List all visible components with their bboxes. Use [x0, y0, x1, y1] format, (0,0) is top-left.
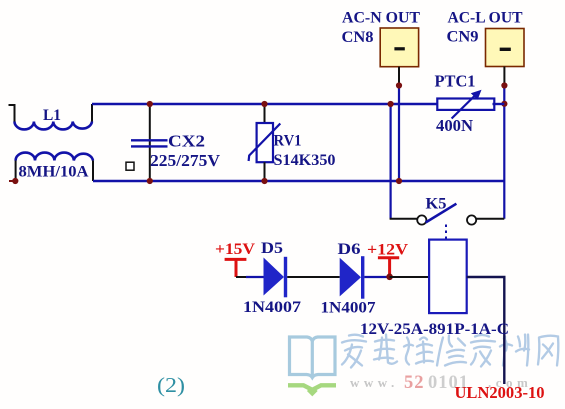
svg-text:1N4007: 1N4007 — [321, 300, 376, 317]
svg-text:CN8: CN8 — [342, 29, 374, 46]
wire to K5 left contact — [390, 218, 418, 220]
diode D5 1N4007 — [264, 257, 288, 298]
svg-text:AC-L OUT: AC-L OUT — [448, 10, 523, 27]
watermark green swoosh — [288, 385, 336, 390]
node dot +12V — [386, 274, 393, 281]
svg-text:L1: L1 — [43, 107, 61, 124]
wire top rail down to K5 — [390, 104, 392, 219]
thermistor PTC1 — [437, 90, 504, 119]
power terminal +15V — [225, 259, 247, 277]
svg-text:S14K350: S14K350 — [274, 152, 336, 169]
svg-text:RV1: RV1 — [274, 133, 302, 150]
svg-text:ULN2003-10: ULN2003-10 — [455, 383, 545, 402]
watermark chinese text 家电维修资料网 — [342, 335, 558, 368]
料 — [500, 335, 529, 366]
svg-text:+12V: +12V — [367, 242, 408, 259]
wire relay coil to ULN2003 — [467, 277, 505, 384]
svg-text:PTC1: PTC1 — [435, 72, 476, 91]
svg-text:225/275V: 225/275V — [150, 151, 221, 170]
svg-text:D5: D5 — [261, 240, 283, 257]
wire CN8 to bottom rail — [398, 86, 400, 182]
svg-text:8MH/10A: 8MH/10A — [19, 163, 89, 180]
node dot CN9 PTC junction — [501, 101, 507, 107]
node dot CN9 pin — [501, 82, 507, 88]
wire top rail — [92, 103, 437, 105]
wire left stub to node — [9, 180, 16, 182]
watermark book icon — [290, 337, 336, 378]
svg-text:1N4007: 1N4007 — [243, 299, 301, 316]
node dot CX2 top — [147, 101, 153, 107]
relay contact K5 — [417, 204, 504, 240]
watermark www.520101.com — [350, 373, 532, 393]
维 — [404, 338, 433, 365]
wire D5 to D6 — [287, 276, 340, 278]
connector CN8 — [380, 28, 418, 86]
wire D6 to +12V node — [364, 276, 389, 278]
wire +12V node to relay coil — [390, 276, 430, 278]
power terminal +12V — [378, 258, 399, 274]
svg-text:(2): (2) — [157, 373, 185, 397]
diode D6 1N4007 — [340, 256, 365, 299]
connector CN9 — [486, 29, 525, 86]
varistor RV1 — [249, 104, 281, 181]
inductor L1 bottom winding — [16, 153, 93, 181]
svg-text:+15V: +15V — [215, 241, 255, 258]
资 — [471, 335, 495, 367]
node dot RV1 top — [261, 101, 267, 107]
svg-text:K5: K5 — [426, 196, 447, 213]
修 — [437, 336, 466, 366]
电 — [374, 335, 397, 364]
node dot top rail K5 tap — [388, 101, 394, 107]
家 — [342, 335, 366, 368]
svg-text:12V-25A-891P-1A-C: 12V-25A-891P-1A-C — [360, 321, 509, 338]
wire bottom rail — [93, 180, 504, 182]
node dot CN8 pin — [396, 82, 402, 88]
capacitor CX2 — [131, 104, 168, 181]
svg-text:D6: D6 — [338, 241, 361, 258]
svg-text:CN9: CN9 — [447, 29, 479, 46]
svg-text:CX2: CX2 — [168, 132, 205, 151]
node dot L1 bottom-left — [12, 178, 18, 184]
svg-text:AC-N OUT: AC-N OUT — [342, 10, 420, 27]
marker small square — [126, 162, 134, 170]
svg-text:52: 52 — [404, 373, 425, 393]
wire CN9 down to K5 contact level — [503, 86, 505, 219]
wire +15V to D5 — [236, 276, 246, 278]
node dot CN8 rail junction — [396, 178, 402, 184]
网 — [538, 336, 558, 366]
node dot RV1 bottom — [261, 178, 267, 184]
svg-text:www.: www. — [350, 375, 399, 390]
relay coil K5 — [429, 240, 467, 314]
node dot CX2 bottom — [147, 178, 153, 184]
svg-text:400N: 400N — [436, 116, 474, 135]
inductor L1 top winding — [9, 104, 93, 129]
